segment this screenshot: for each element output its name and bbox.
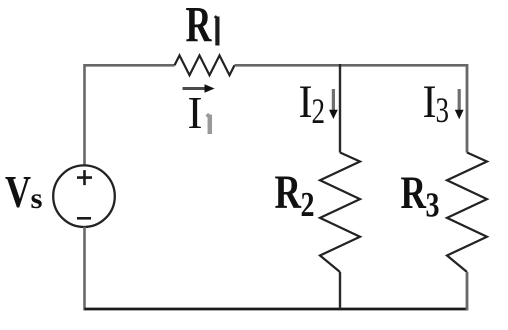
svg-text:R: R <box>401 167 427 219</box>
resistor R1 <box>175 55 235 75</box>
svg-text:R: R <box>275 166 303 219</box>
wire R3 branch lower <box>466 272 469 310</box>
wire R2 branch lower <box>339 272 341 309</box>
svg-text:R: R <box>186 0 213 54</box>
svg-text:I: I <box>299 76 313 128</box>
svg-text:V: V <box>5 167 31 217</box>
arrow I2 <box>332 89 335 111</box>
wire top-left horizontal segment <box>85 64 175 67</box>
svg-text:3: 3 <box>436 90 450 130</box>
voltage source VS <box>53 165 115 227</box>
wire R3 branch upper <box>466 64 469 153</box>
svg-text:I: I <box>188 87 203 138</box>
arrow I1 <box>183 87 206 90</box>
wire bottom horizontal <box>85 308 468 311</box>
plus sign <box>77 170 92 185</box>
resistor R2 <box>320 153 360 273</box>
label R1 subscript 1 <box>215 17 217 46</box>
svg-text:s: s <box>31 182 43 215</box>
wire left vertical lower <box>83 227 86 311</box>
wire R2 branch upper <box>339 64 341 153</box>
svg-text:2: 2 <box>301 185 315 224</box>
svg-text:3: 3 <box>426 186 440 225</box>
label I1 subscript 1 <box>207 115 210 135</box>
minus sign <box>77 217 91 220</box>
svg-text:2: 2 <box>312 91 326 131</box>
svg-text:I: I <box>423 76 437 128</box>
resistor R3 <box>447 153 487 273</box>
wire left vertical upper <box>83 64 86 166</box>
wire top horizontal to right <box>235 64 468 67</box>
arrow I3 <box>458 89 461 111</box>
